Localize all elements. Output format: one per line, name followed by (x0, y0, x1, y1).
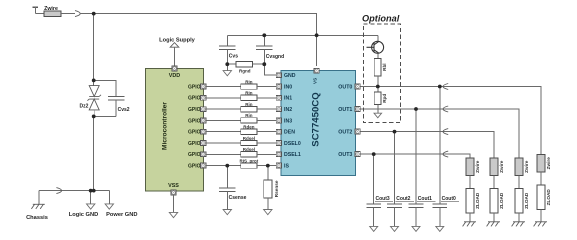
svg-text:Chassis: Chassis (26, 215, 48, 221)
junction Rsense tap (266, 164, 270, 168)
resistor Rden (row DEN) (241, 129, 257, 134)
junction OUT3/Cout3 (372, 152, 376, 156)
svg-text:Rgnd: Rgnd (239, 69, 251, 74)
svg-text:Rin: Rin (245, 91, 253, 96)
wire Rsense to ground (267, 198, 269, 210)
wire Zwire to entry (61, 13, 75, 15)
resistor Zwire (supply lead) (44, 6, 61, 17)
wire entry connector OUT2 (443, 129, 448, 135)
svg-text:OUT3: OUT3 (338, 152, 352, 158)
svg-text:OUT0: OUT0 (338, 84, 352, 90)
wire Cout2 to ground (394, 208, 396, 227)
svg-text:IN3: IN3 (284, 118, 292, 124)
wire OUT0 net (360, 86, 541, 88)
resistor RIS_prot (row IS) (241, 163, 257, 168)
pin GND (276, 73, 281, 78)
svg-text:Rin: Rin (245, 113, 253, 118)
junction Cvs gnd node (225, 62, 229, 66)
pin DSEL0 (276, 141, 281, 146)
svg-text:Rbl: Rbl (382, 63, 387, 70)
ground at Cvs (226, 64, 228, 70)
ground at Cout2 (391, 226, 399, 231)
microcontroller U2 (146, 68, 204, 191)
wire GPIO6 to R (206, 142, 241, 144)
wire Cout0 to ground (439, 208, 441, 227)
svg-text:GPIO: GPIO (188, 84, 201, 90)
wire entry connector OUT0 (443, 84, 448, 90)
svg-text:Rden: Rden (243, 125, 255, 130)
wire Zwire to ZLOAD 2 (493, 176, 495, 189)
capacitor Cvs (226, 35, 228, 46)
wire ZLOAD to chassis 1 (518, 213, 520, 222)
wire Zwire to ZLOAD 3 (469, 176, 471, 189)
svg-text:GPIO: GPIO (188, 96, 201, 102)
wire GPIO1 to R (206, 86, 241, 88)
svg-text:Zwire: Zwire (499, 160, 504, 173)
resistor Rgnd (236, 62, 252, 67)
svg-text:GPIO: GPIO (188, 164, 201, 170)
svg-text:Zwire: Zwire (44, 6, 58, 12)
svg-text:OUT2: OUT2 (338, 130, 352, 136)
resistor ZLOAD 1 (515, 189, 523, 214)
capacitor Cvs2 (108, 96, 130, 116)
wire GPIO3 to R (206, 108, 241, 110)
svg-text:Dz2: Dz2 (79, 104, 88, 110)
wire top supply rail (80, 14, 317, 36)
wire Cout3 drop (373, 154, 375, 204)
svg-text:Rsense: Rsense (274, 180, 279, 197)
wire OUT2 net (360, 131, 494, 133)
svg-text:DSEL0: DSEL0 (284, 141, 301, 147)
svg-text:Csense: Csense (229, 195, 247, 201)
svg-text:VDD: VDD (169, 73, 180, 79)
junction on supply rail (92, 12, 96, 16)
svg-text:Rin: Rin (245, 102, 253, 107)
junction below Dz2 (92, 115, 96, 119)
svg-text:GPIO: GPIO (188, 130, 201, 136)
wire branch to Cvs2 (94, 80, 117, 96)
svg-text:Rin: Rin (245, 79, 253, 84)
junction OUT0/optional (376, 85, 380, 89)
wire OUT0 to Zwire load (540, 87, 542, 155)
svg-text:Cvs: Cvs (229, 53, 238, 59)
resistor Zwire (load 3) (466, 158, 474, 176)
capacitor Cout2 (387, 204, 402, 208)
junction ground bus (92, 189, 96, 193)
wire Rgnd to Cvsgnd node (252, 63, 264, 65)
resistor Rin (row IN2) (241, 106, 257, 111)
wire ZLOAD to chassis 3 (469, 213, 471, 222)
wire VS rail to Q1 emitter (377, 35, 379, 41)
junction Cvsgnd rail (262, 33, 266, 37)
wire OUT3 net (360, 153, 470, 155)
wire Zwire to ZLOAD 1 (518, 176, 520, 189)
svg-text:SC77450CQ: SC77450CQ (310, 92, 321, 147)
junction Logic GND tap (89, 189, 93, 193)
pin VDD (172, 66, 177, 71)
wire R to DSEL1 (257, 153, 276, 155)
wire Cout1 to ground (415, 208, 417, 227)
supply bar terminal (33, 7, 38, 13)
chassis ground at load 3 (463, 222, 476, 227)
resistor Rdsel (row DSEL1) (241, 152, 257, 157)
svg-text:VS: VS (313, 78, 318, 84)
svg-text:Rpd: Rpd (382, 94, 387, 103)
resistor Zwire (load 0) (537, 155, 545, 173)
wire ZLOAD to chassis 0 (540, 210, 542, 222)
wire R to DSEL0 (257, 142, 276, 144)
wire R to IN0 (257, 86, 276, 88)
wire down to Dz2 (93, 14, 95, 86)
resistor Rdsel (row DSEL0) (241, 140, 257, 145)
resistor ZLOAD 0 (537, 185, 545, 210)
pin DSEL1 (276, 152, 281, 157)
wire ground bus (39, 190, 110, 192)
svg-text:IS: IS (284, 164, 289, 170)
IC U1 SC77450CQ (281, 71, 356, 176)
pin DEN (276, 129, 281, 134)
wire ZLOAD to chassis 2 (493, 213, 495, 222)
wire OUT1 to Zwire load (518, 109, 520, 158)
svg-text:Logic Supply: Logic Supply (159, 37, 196, 43)
wire GPIO4 to R (206, 119, 241, 121)
capacitor Cout3 (366, 204, 381, 208)
wire Rbl to OUT0 (377, 76, 379, 87)
wire GPIO2 to R (206, 97, 241, 99)
junction OUT0/Cout0 (438, 85, 442, 89)
wire Cvsgnd node to GND pin (264, 64, 276, 75)
junction Csense tap (225, 164, 229, 168)
resistor ZLOAD 3 (466, 189, 474, 214)
wire chassis drop (38, 191, 40, 205)
wire VSS to ground (173, 195, 175, 212)
svg-text:Microcontroller: Microcontroller (162, 102, 169, 150)
ground at Csense (223, 210, 231, 215)
junction Cvsgnd gnd node (262, 62, 266, 66)
svg-text:GND: GND (284, 73, 296, 79)
wire Cout2 drop (394, 132, 396, 204)
junction node VS2 top (92, 79, 96, 83)
ground at Cout3 (370, 226, 378, 231)
capacitor Cout1 (409, 204, 424, 208)
wire R to IS (257, 165, 276, 167)
wire VS pin drop (316, 35, 318, 66)
wire OUT3 to Zwire load (469, 154, 471, 158)
ground in optional network (374, 113, 382, 118)
capacitor Cout0 (433, 204, 448, 208)
pin IS (276, 163, 281, 168)
ground Power GND (105, 191, 137, 218)
wire supply to Zwire (35, 13, 44, 15)
svg-text:Zwire: Zwire (546, 157, 551, 170)
wire entry connector (battery side) (75, 11, 80, 17)
svg-text:GPIO: GPIO (188, 152, 201, 158)
wire Rpd to ground (377, 105, 379, 114)
junction VS rail / VS pin (315, 33, 319, 37)
optional network boundary (364, 24, 401, 123)
ground at Cout1 (412, 226, 420, 231)
wire VS rail (227, 34, 377, 36)
resistor Rbl (374, 58, 381, 75)
svg-text:ZLOAD: ZLOAD (546, 189, 551, 206)
pin IN0 (276, 84, 281, 89)
svg-text:IN2: IN2 (284, 107, 292, 113)
wire OUT2 to Zwire load (493, 132, 495, 158)
wire down to ground bus (93, 116, 95, 190)
svg-text:Cvsgnd: Cvsgnd (266, 54, 284, 60)
diode Dz2 (bidirectional TVS) (87, 86, 101, 117)
resistor Rpd (374, 92, 381, 104)
svg-text:Power GND: Power GND (106, 212, 137, 218)
pin IN3 (276, 118, 281, 123)
wire Rsense drop (267, 166, 269, 180)
wire GPIO8 to R (206, 165, 241, 167)
svg-text:VSS: VSS (168, 183, 179, 189)
svg-text:Optional: Optional (362, 14, 400, 24)
svg-text:IN1: IN1 (284, 96, 292, 102)
resistor Zwire (load 1) (515, 158, 523, 176)
svg-text:Zwire: Zwire (524, 160, 529, 173)
chassis ground at load 1 (512, 222, 525, 227)
junction OUT1/Cout1 (414, 107, 418, 111)
wire entry connector OUT3 (443, 151, 448, 157)
svg-text:IN0: IN0 (284, 84, 292, 90)
resistor Rin (row IN3) (241, 118, 257, 123)
svg-text:GPIO: GPIO (188, 107, 201, 113)
svg-text:OUT1: OUT1 (338, 107, 352, 113)
wire GPIO7 to R (206, 153, 241, 155)
capacitor Csense (219, 188, 235, 192)
wire Zwire to ZLOAD 0 (540, 172, 542, 185)
svg-text:ZLOAD: ZLOAD (475, 192, 480, 209)
wire Csense to ground (226, 192, 228, 210)
wire OUT0 to Rpd (377, 87, 379, 93)
wire Cvs2 to node (94, 115, 117, 117)
svg-text:Zwire: Zwire (475, 160, 480, 173)
svg-text:GPIO: GPIO (188, 118, 201, 124)
svg-text:Rdsel: Rdsel (243, 147, 255, 152)
transistor Q1 (367, 41, 384, 53)
svg-text:DSEL1: DSEL1 (284, 152, 301, 158)
wire R to IN3 (257, 119, 276, 121)
pin IN1 (276, 95, 281, 100)
resistor Rin (row IN1) (241, 95, 257, 100)
svg-text:Rdsel: Rdsel (243, 136, 255, 141)
wire Q1 collector to Rbl (377, 53, 379, 58)
resistor Zwire (load 2) (490, 158, 498, 176)
junction OUT2/Cout2 (393, 130, 397, 134)
chassis ground at load 2 (487, 222, 500, 227)
chassis ground symbol (31, 204, 44, 209)
ground at Cout0 (436, 226, 444, 231)
svg-text:GPIO: GPIO (188, 141, 201, 147)
wire Cout1 drop (415, 109, 417, 204)
wire GPIO5 to R (206, 131, 241, 133)
wire entry connector (ground bus) (56, 188, 61, 194)
svg-text:Cvs2: Cvs2 (118, 107, 130, 113)
pin VS (314, 68, 319, 73)
svg-text:Logic GND: Logic GND (69, 212, 98, 218)
wire entry connector OUT1 (443, 106, 448, 112)
resistor Rin (row IN0) (241, 84, 257, 89)
wire R to IN1 (257, 97, 276, 99)
ground Logic GND (69, 191, 98, 218)
capacitor Cvsgnd (263, 35, 265, 46)
svg-text:DEN: DEN (284, 130, 295, 136)
pin IN2 (276, 107, 281, 112)
wire R to DEN (257, 131, 276, 133)
wire Cout0 drop (439, 87, 441, 205)
svg-text:ZLOAD: ZLOAD (524, 192, 529, 209)
wire Cout3 to ground (373, 208, 375, 227)
ground at VSS (169, 212, 177, 217)
svg-text:RIS_prot: RIS_prot (240, 158, 259, 163)
resistor Rsense (264, 180, 272, 198)
svg-text:ZLOAD: ZLOAD (499, 192, 504, 209)
resistor ZLOAD 2 (490, 189, 498, 214)
ground at Rsense (264, 210, 272, 215)
wire Csense drop (226, 166, 228, 188)
wire OUT1 net (360, 108, 519, 110)
wire Cvs node to Rgnd (227, 63, 236, 65)
chassis ground at load 0 (534, 222, 547, 227)
wire R to IN2 (257, 108, 276, 110)
